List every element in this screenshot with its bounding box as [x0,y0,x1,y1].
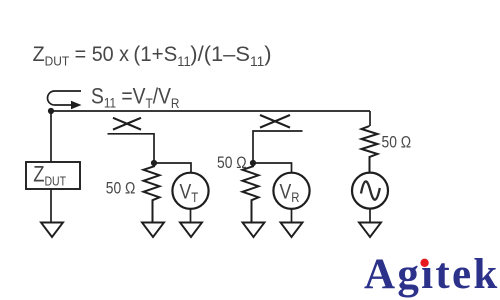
label 50 ohm R1 [106,180,136,198]
node B (tap 1 node) [151,160,157,166]
sine symbol [361,181,380,199]
resistor R3 50ohm [362,126,378,173]
node A (input node) [48,108,54,114]
ground (under VT) [180,223,202,238]
label 50 ohm R3 [382,133,412,151]
Agitek logo red i-dot [420,259,428,267]
label VT [180,180,199,205]
label 50 ohm R2 [217,154,247,172]
label S11 = VT/VR [91,84,179,111]
wire node to Z_DUT [50,111,52,162]
wire main bus [51,110,370,112]
ground (under R2) [243,223,265,238]
wire VS to ground [369,209,371,222]
voltmeter VR [273,173,309,209]
svg-text:50 Ω: 50 Ω [382,133,412,151]
coupler cross X2 [260,115,290,128]
resistor R2 50ohm [243,163,259,222]
Z_DUT box [26,162,80,189]
node C (tap 2 node) [250,160,256,166]
ground (under VS) [359,223,381,238]
wire node B to VT meter [154,163,191,173]
wire node C to VR meter [253,163,292,173]
label Z_DUT [33,163,66,189]
wire tap 2 (coupled line) [253,131,303,163]
svg-text:50 Ω: 50 Ω [217,154,247,172]
ground (under VR) [281,223,303,238]
svg-text:(1+S11: (1+S11 [133,43,190,69]
resistor R1 50ohm [144,163,160,222]
label VR [280,180,300,205]
wire Z_DUT to ground [50,189,52,222]
ground (under R1) [142,223,164,238]
formula Z_DUT = 50 x (1+S11)/(1-S11) [33,41,272,69]
wire bus to R3 [369,111,371,126]
svg-text:50 Ω: 50 Ω [106,180,136,198]
coupler cross X1 [113,118,141,130]
svg-text:ZDUT = 50 x: ZDUT = 50 x [33,42,130,68]
svg-text:)/(1–S11): )/(1–S11) [190,41,271,69]
svg-text:S11 =VT/VR: S11 =VT/VR [91,84,179,111]
reflection u-turn arrow [48,91,81,105]
source VS (sine generator) [352,173,388,209]
voltmeter VT [172,173,208,209]
svg-text:Agıtek: Agıtek [364,251,500,298]
wire VT to ground [190,209,192,222]
wire VR to ground [291,209,293,222]
ground (under Z_DUT) [41,223,63,238]
wire tap 1 (coupled line) [108,134,155,163]
